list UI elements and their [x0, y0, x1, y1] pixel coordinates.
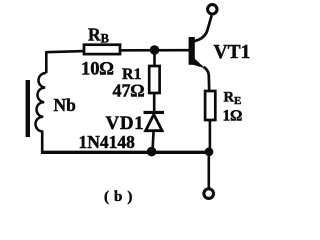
transistor VT1 collector	[193, 16, 212, 42]
inductor core bar	[26, 80, 30, 137]
node junction diode-bottom	[147, 147, 157, 157]
svg-text:1N4148: 1N4148	[79, 132, 136, 152]
resistor R1	[149, 66, 159, 93]
diode VD1 cathode bar	[144, 111, 165, 114]
wire R1 to diode	[153, 93, 156, 112]
transistor VT1 base bar	[189, 37, 195, 65]
svg-text:Nb: Nb	[54, 95, 77, 115]
wire RE to bottom rail	[209, 120, 212, 151]
resistor RB	[84, 45, 120, 54]
wire diode to bottom rail	[153, 131, 154, 151]
diode VD1 triangle	[146, 115, 163, 131]
transistor VT1 emitter with arrow	[193, 57, 206, 69]
resistor RE	[205, 91, 215, 120]
wire left rail lower	[41, 131, 44, 153]
svg-text:VD1: VD1	[106, 113, 145, 134]
wire to bottom terminal	[208, 152, 211, 188]
terminal bottom	[204, 189, 214, 199]
wire top rail	[46, 50, 189, 52]
svg-text:VT1: VT1	[214, 42, 251, 63]
svg-text:10Ω: 10Ω	[81, 60, 114, 80]
wire bottom rail	[41, 151, 210, 154]
svg-text:(b): (b)	[104, 189, 137, 205]
inductor Nb coil	[35, 73, 46, 131]
wire left rail upper	[45, 51, 48, 73]
node junction RE-bottom	[205, 147, 214, 156]
svg-text:47Ω: 47Ω	[113, 80, 145, 100]
wire R1 branch upper	[153, 50, 156, 67]
node junction at R1 top	[150, 45, 160, 55]
terminal top	[208, 5, 217, 14]
svg-text:1Ω: 1Ω	[223, 108, 243, 125]
